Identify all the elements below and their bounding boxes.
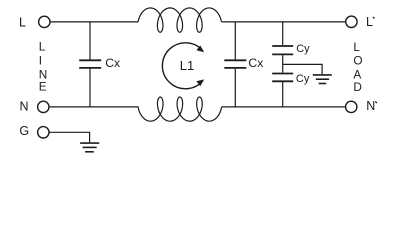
wire Cx2 bottom branch xyxy=(234,69,236,107)
terminal N' xyxy=(346,101,357,112)
ground (right) xyxy=(313,75,332,84)
wire Cy midpoint xyxy=(282,55,284,72)
svg-text:L: L xyxy=(366,15,373,29)
choke L1 bottom winding xyxy=(138,97,222,121)
svg-text:Cy: Cy xyxy=(296,73,310,85)
capacitor Cy (lower) xyxy=(272,74,293,82)
svg-text:D: D xyxy=(353,80,362,94)
svg-text:N: N xyxy=(19,99,28,113)
wire Cx1 top branch xyxy=(89,22,91,60)
terminal L' xyxy=(346,16,357,27)
svg-text:N: N xyxy=(366,99,375,113)
capacitor Cx (line side) xyxy=(79,60,101,68)
svg-text:L: L xyxy=(19,15,26,29)
wire choke to N' xyxy=(222,106,346,108)
wire L to choke xyxy=(50,21,138,23)
svg-text:Cx: Cx xyxy=(248,56,263,70)
capacitor Cy (upper) xyxy=(272,46,293,54)
svg-text:E: E xyxy=(39,80,47,94)
svg-text:L1: L1 xyxy=(180,58,194,73)
svg-text:Cy: Cy xyxy=(296,43,310,55)
wire midpoint to ground xyxy=(283,64,322,74)
wire Cx1 bottom branch xyxy=(89,69,91,107)
wire Cx2 top branch xyxy=(234,22,236,60)
svg-text:G: G xyxy=(19,124,29,138)
choke L1 top winding xyxy=(138,8,221,32)
capacitor Cx (load side) xyxy=(224,60,246,68)
terminal L xyxy=(39,16,50,27)
ground (left) xyxy=(80,143,99,152)
svg-text:O: O xyxy=(353,53,362,67)
L1 flux arrow arc xyxy=(162,43,203,89)
wire choke to L' xyxy=(222,21,346,23)
svg-text:Cx: Cx xyxy=(105,56,120,70)
svg-text:I: I xyxy=(39,54,42,68)
wire N to choke xyxy=(49,106,138,108)
terminal G xyxy=(38,127,49,138)
wire Cy bottom branch xyxy=(282,82,284,107)
wire Cy top branch xyxy=(282,22,284,45)
svg-text:L: L xyxy=(39,40,46,54)
svg-text:L: L xyxy=(353,40,360,54)
wire G to ground xyxy=(49,132,90,142)
terminal N xyxy=(38,101,49,112)
